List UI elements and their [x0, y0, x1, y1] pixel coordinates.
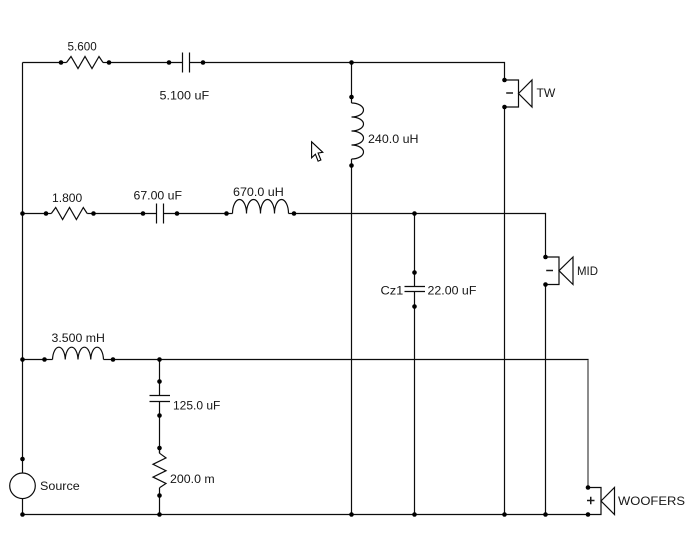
svg-text:670.0 uH: 670.0 uH — [233, 185, 284, 199]
wire bottom bus — [23, 514, 589, 516]
junction (left bus / middle row) — [20, 211, 25, 216]
junction (MID return / bottom bus) — [543, 512, 548, 517]
wire shunt branch upper — [159, 360, 161, 396]
junction (L1 left, third row) — [42, 357, 47, 362]
inductor L3 (670.0 uH) — [233, 200, 289, 214]
wire TW return line — [504, 107, 506, 515]
svg-text:WOOFERS: WOOFERS — [618, 494, 685, 508]
junction (Cz1 bottom terminal) — [412, 304, 417, 309]
junction (R3 bottom terminal) — [157, 493, 162, 498]
junction (left bus / third row) — [20, 357, 25, 362]
junction (R3 top terminal) — [157, 446, 162, 451]
junction (C1 right, top row) — [201, 60, 206, 65]
speaker WOOFERS — [588, 488, 601, 515]
capacitor Cz1 (22.00 uF) — [405, 287, 426, 292]
junction (third row / shunt branch) — [157, 357, 162, 362]
svg-text:67.00 uF: 67.00 uF — [134, 189, 183, 203]
svg-text:5.100 uF: 5.100 uF — [160, 89, 210, 103]
junction (Cz1 top terminal) — [412, 270, 417, 275]
junction (L2 bottom terminal) — [349, 163, 354, 168]
svg-text:TW: TW — [537, 86, 556, 100]
wire middle row segment 3 — [164, 213, 227, 215]
junction (C1 left, top row) — [167, 60, 172, 65]
resistor R3 (200.0 m, vertical) — [153, 453, 166, 488]
svg-text:240.0 uH: 240.0 uH — [368, 132, 419, 146]
junction (C3 bottom terminal) — [157, 413, 162, 418]
junction (middle row / Cz1 branch) — [412, 211, 417, 216]
junction (source bottom / bottom bus) — [20, 512, 25, 517]
wire 240uH branch upper — [351, 63, 353, 104]
capacitor C1 (5.100 uF) — [183, 53, 190, 73]
wire Cz1 branch lower — [414, 292, 416, 515]
junction (Cz1 branch / bottom bus) — [412, 512, 417, 517]
junction (source top terminal) — [20, 457, 25, 462]
junction (R1 right, top row) — [107, 60, 112, 65]
junction (MID + terminal) — [543, 255, 548, 260]
junction (L2 top terminal) — [349, 95, 354, 100]
svg-text:MID: MID — [577, 264, 598, 278]
wire third row segment 1 — [23, 359, 45, 361]
wire left bus below source — [22, 499, 24, 515]
junction (MID - terminal) — [543, 282, 548, 287]
junction (L3 left, middle row) — [224, 211, 229, 216]
wire Cz1 branch upper — [414, 214, 416, 287]
junction (R2 right, middle row) — [91, 211, 96, 216]
wire middle row segment 2 — [94, 213, 158, 215]
svg-text:3.500 mH: 3.500 mH — [52, 331, 105, 345]
svg-text:5.600: 5.600 — [68, 40, 98, 54]
mouse cursor — [312, 142, 323, 161]
junction (TW + terminal) — [502, 78, 507, 83]
wire third row segment 2 (to WOOFERS corner) — [113, 359, 589, 361]
wire MID return line — [545, 285, 547, 515]
junction (WOOFERS bottom / bottom bus) — [586, 512, 591, 517]
wire WOOFERS feed (gray) — [587, 360, 589, 487]
junction (TW return / bottom bus) — [502, 512, 507, 517]
source (signal source symbol) — [10, 473, 36, 499]
junction (C2 right, middle row) — [175, 211, 180, 216]
svg-text:1.800: 1.800 — [52, 191, 83, 205]
wire top row segment 2 (between R1 and C1) — [109, 62, 183, 64]
junction (C3 top terminal) — [157, 379, 162, 384]
junction (WOOFERS top terminal) — [586, 485, 591, 490]
svg-text:Cz1: Cz1 — [381, 284, 404, 298]
junction (top row / L2 branch) — [349, 60, 354, 65]
inductor L1 (3.500 mH) — [53, 347, 104, 359]
resistor R1 (5.600) — [67, 57, 104, 69]
junction (R2 left, middle row) — [44, 211, 49, 216]
wire middle row segment 4 (to MID corner) — [294, 214, 546, 258]
capacitor C2 (67.00 uF) — [157, 204, 164, 224]
speaker TW — [505, 80, 519, 107]
wire shunt branch middle — [159, 402, 161, 454]
wire left bus vertical — [22, 63, 24, 474]
junction (shunt branch / bottom bus) — [157, 512, 162, 517]
junction (C2 left, middle row) — [141, 211, 146, 216]
wire top row segment 3 (C1 to TW corner) — [190, 63, 505, 81]
svg-text:200.0 m: 200.0 m — [170, 472, 215, 486]
wire middle row segment 1 — [23, 213, 47, 215]
capacitor C3 (125.0 uF) — [150, 396, 171, 402]
junction (L2 branch / bottom bus) — [349, 512, 354, 517]
inductor L2 (240.0 uH, vertical) — [352, 103, 364, 159]
wire 240uH branch lower — [351, 159, 353, 515]
svg-text:22.00 uF: 22.00 uF — [428, 284, 477, 298]
wire top row segment 1 — [23, 62, 62, 64]
speaker MID — [546, 257, 560, 285]
svg-text:125.0 uF: 125.0 uF — [173, 399, 220, 413]
junction (L3 right, middle row) — [292, 211, 297, 216]
junction (TW - terminal) — [502, 105, 507, 110]
junction (R1 left, top row) — [59, 60, 64, 65]
junction (L1 right, third row) — [111, 357, 116, 362]
resistor R2 (1.800) — [51, 208, 87, 220]
wire shunt branch lower — [159, 488, 161, 515]
svg-text:Source: Source — [40, 479, 80, 493]
